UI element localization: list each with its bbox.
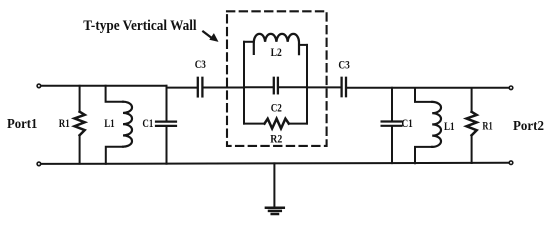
node Port1 bottom terminal — [37, 162, 41, 166]
svg-text:L1: L1 — [104, 116, 115, 130]
svg-text:R1: R1 — [59, 116, 70, 130]
svg-text:R1: R1 — [482, 119, 492, 133]
ground — [266, 208, 284, 214]
capacitor C3 left (series) — [198, 78, 203, 97]
capacitor C1 right — [382, 88, 402, 163]
wire top rail left segment — [41, 85, 166, 87]
wire ground stem — [273, 163, 275, 207]
wire top rail inside block left of C2 — [244, 86, 273, 88]
svg-text:C2: C2 — [271, 101, 282, 115]
resistor R1 right — [467, 88, 477, 163]
resistor R1 left — [75, 86, 85, 164]
wire top rail jog at C1 junction — [166, 86, 168, 88]
wire bottom rail — [41, 163, 508, 164]
capacitor C3 right (series) — [342, 78, 346, 96]
svg-text:C1: C1 — [142, 116, 153, 130]
inductor L1 right — [415, 88, 441, 163]
inductor L2 — [244, 34, 307, 54]
wire right C3 to right terminal — [347, 87, 509, 89]
capacitor C2 — [274, 78, 278, 94]
svg-text:C3: C3 — [338, 58, 349, 72]
wire block left connector — [243, 42, 245, 124]
svg-text:R2: R2 — [270, 131, 282, 145]
resistor R2 — [244, 119, 307, 129]
svg-text:C1: C1 — [402, 116, 413, 130]
dashed box T-type vertical wall — [227, 11, 327, 146]
node Port1 top terminal — [37, 84, 41, 88]
wire top rail left C3 to block left connector — [204, 87, 245, 89]
node Port2 top terminal — [509, 86, 513, 90]
wire top rail from C1 to left C3 — [167, 87, 197, 89]
arrow pointing to dashed box — [203, 32, 218, 42]
svg-text:L2: L2 — [271, 45, 282, 59]
svg-text:Port2: Port2 — [513, 119, 544, 134]
node Port2 bottom terminal — [509, 161, 513, 165]
wire top rail inside block right of C2 — [279, 86, 307, 88]
svg-text:Port1: Port1 — [7, 117, 37, 132]
capacitor C1 left — [156, 88, 176, 164]
svg-text:L1: L1 — [444, 119, 455, 133]
wire block right connector to right C3 — [307, 86, 341, 88]
svg-text:C3: C3 — [195, 57, 206, 71]
inductor L1 left — [106, 86, 132, 164]
svg-text:T-type Vertical Wall: T-type Vertical Wall — [83, 18, 196, 34]
wire block right connector — [306, 45, 308, 124]
